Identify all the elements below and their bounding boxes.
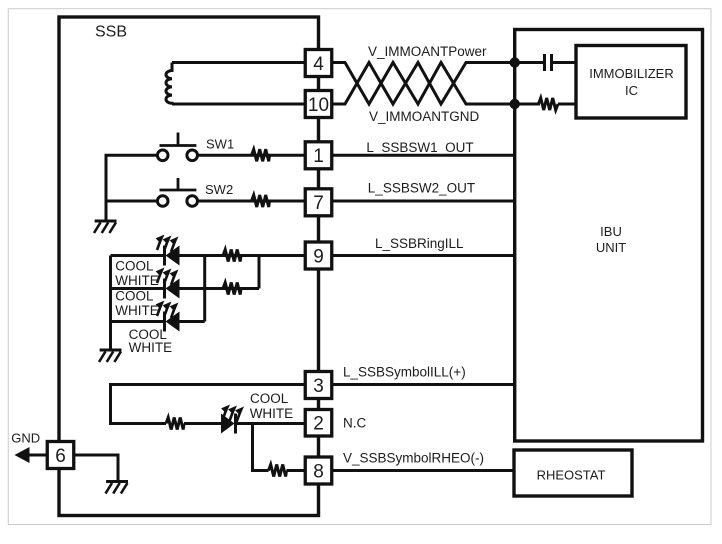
svg-text:RHEOSTAT: RHEOSTAT: [537, 468, 606, 483]
svg-text:L_SSBSymbolILL(+): L_SSBSymbolILL(+): [343, 365, 466, 380]
svg-text:10: 10: [308, 95, 329, 116]
svg-text:IC: IC: [625, 83, 638, 98]
svg-text:UNIT: UNIT: [596, 240, 626, 255]
svg-text:WHITE: WHITE: [115, 303, 159, 318]
svg-text:COOL: COOL: [115, 289, 154, 304]
svg-text:7: 7: [313, 193, 324, 214]
svg-text:COOL: COOL: [250, 391, 289, 406]
svg-text:IMMOBILIZER: IMMOBILIZER: [589, 66, 674, 81]
svg-text:3: 3: [313, 376, 324, 397]
svg-text:V_IMMOANTPower: V_IMMOANTPower: [368, 44, 487, 59]
svg-text:GND: GND: [11, 430, 40, 445]
svg-text:9: 9: [313, 246, 324, 267]
svg-text:WHITE: WHITE: [250, 406, 294, 421]
svg-text:8: 8: [313, 461, 324, 482]
svg-text:WHITE: WHITE: [115, 273, 159, 288]
svg-text:1: 1: [313, 146, 324, 167]
svg-text:2: 2: [313, 414, 324, 435]
svg-text:V_SSBSymbolRHEO(-): V_SSBSymbolRHEO(-): [343, 451, 484, 466]
svg-text:V_IMMOANTGND: V_IMMOANTGND: [369, 109, 480, 124]
svg-text:6: 6: [55, 446, 66, 467]
svg-text:L_SSBRingILL: L_SSBRingILL: [375, 236, 464, 251]
svg-text:SW1: SW1: [206, 137, 234, 152]
svg-text:N.C: N.C: [343, 416, 367, 431]
svg-text:SW2: SW2: [205, 182, 233, 197]
svg-text:COOL: COOL: [115, 258, 154, 273]
svg-text:WHITE: WHITE: [129, 340, 173, 355]
svg-text:4: 4: [313, 54, 324, 75]
svg-text:IBU: IBU: [600, 224, 622, 239]
svg-text:L_SSBSW2_OUT: L_SSBSW2_OUT: [368, 181, 475, 196]
svg-text:L_SSBSW1_OUT: L_SSBSW1_OUT: [366, 140, 473, 155]
svg-text:SSB: SSB: [95, 24, 127, 41]
